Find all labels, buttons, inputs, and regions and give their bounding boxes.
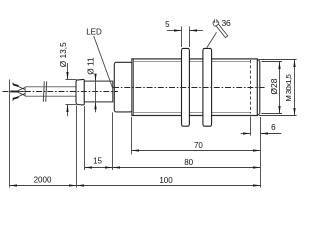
wrench symbol <box>211 18 229 39</box>
dim 15 <box>85 106 113 170</box>
dim 70 <box>132 117 261 154</box>
svg-text:100: 100 <box>159 176 173 185</box>
wire top <box>14 85 25 92</box>
svg-text:Ø 11: Ø 11 <box>85 57 95 75</box>
dim diameter 11 <box>95 76 97 113</box>
wire bottom <box>14 92 25 99</box>
svg-text:70: 70 <box>194 141 203 150</box>
nut 1 <box>182 48 190 126</box>
svg-text:Ø28: Ø28 <box>269 78 279 94</box>
barrel <box>132 59 257 116</box>
svg-text:M 30x1,5: M 30x1,5 <box>284 74 293 101</box>
LED leader <box>94 36 113 88</box>
svg-text:2000: 2000 <box>34 175 52 184</box>
wrench leader <box>207 32 217 47</box>
dim 5 <box>167 27 203 48</box>
strain-relief flange <box>76 79 84 105</box>
svg-text:36: 36 <box>222 18 232 28</box>
svg-text:6: 6 <box>271 123 276 132</box>
dim diameter 13,5 <box>65 63 76 116</box>
face chamfer top <box>257 59 260 62</box>
sensing face <box>259 61 261 113</box>
sleeve <box>84 81 113 102</box>
wire middle <box>15 91 25 93</box>
thread minor lines <box>134 61 251 63</box>
centerline barrel axis <box>113 87 265 89</box>
svg-text:5: 5 <box>165 20 170 29</box>
dim thread M30x1,5 <box>259 60 297 116</box>
dim 2000 <box>10 80 77 188</box>
dim 100 <box>77 106 261 188</box>
svg-text:80: 80 <box>184 158 193 167</box>
nut 2 <box>203 48 212 126</box>
barrel left face relief line <box>132 59 134 115</box>
centerline cable axis <box>3 91 119 93</box>
thread runout dashed line <box>250 60 252 114</box>
dim 80 <box>113 113 261 171</box>
face chamfer bottom <box>257 114 260 116</box>
step cylinder <box>114 62 132 112</box>
svg-text:LED: LED <box>86 28 102 37</box>
svg-text:Ø 13,5: Ø 13,5 <box>58 42 68 67</box>
dim 6 <box>241 117 282 136</box>
extension line sensing face <box>260 117 262 188</box>
cable sheath <box>25 87 76 96</box>
dim diameter 28 <box>262 62 283 114</box>
svg-text:15: 15 <box>93 157 102 166</box>
cable break mark <box>43 81 46 101</box>
